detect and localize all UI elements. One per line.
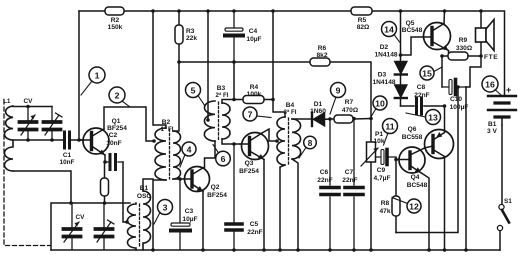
label Q2 BF254 xyxy=(207,184,227,199)
wire battery to switch xyxy=(501,125,503,204)
transistor Q5 xyxy=(424,23,451,51)
svg-text:22nF: 22nF xyxy=(342,177,357,184)
svg-text:B3: B3 xyxy=(217,85,226,92)
node 12 xyxy=(392,198,421,214)
junction dot B3 tap xyxy=(206,118,210,122)
wire C1 to Q1 base xyxy=(72,139,92,141)
wire Q3 collector to B4 tap xyxy=(262,129,277,141)
svg-text:8: 8 xyxy=(308,139,313,148)
node 6 xyxy=(213,145,230,166)
node 16 xyxy=(482,76,501,95)
resistor R3 xyxy=(175,11,183,62)
svg-text:C7: C7 xyxy=(345,169,354,176)
svg-text:P1: P1 xyxy=(375,131,383,138)
svg-text:R2: R2 xyxy=(111,17,120,24)
junction dot rail D2 xyxy=(399,9,403,13)
svg-text:2: 2 xyxy=(115,91,120,101)
wire +3V top rail xyxy=(79,11,505,95)
wire B3 secondary top to R4 C4 xyxy=(222,100,234,104)
svg-text:22nF: 22nF xyxy=(317,177,332,184)
junction dot L1 coupling xyxy=(69,201,73,205)
label C2 10nF xyxy=(106,132,121,147)
junction dot P1 ground xyxy=(369,248,373,252)
wire L1 bottom coupling xyxy=(13,171,71,203)
junction dot B2 ground xyxy=(151,248,155,252)
svg-text:C5: C5 xyxy=(250,221,259,228)
junction dot C7 top xyxy=(352,117,356,121)
label R4 100k xyxy=(247,84,262,98)
svg-text:5: 5 xyxy=(191,86,196,96)
wire D2 D3 bias chain xyxy=(400,11,402,106)
label B1 3V xyxy=(487,121,497,135)
svg-text:82Ω: 82Ω xyxy=(357,24,370,31)
junction dot Q6 collector ground xyxy=(443,248,447,252)
svg-text:10µF: 10µF xyxy=(246,36,261,43)
junction dot B4 primary ground xyxy=(278,248,282,252)
svg-text:10µF: 10µF xyxy=(182,216,197,223)
core B2 xyxy=(169,129,171,179)
label R3 22k xyxy=(186,28,197,42)
wire Q5 base xyxy=(401,37,424,55)
resistor R4 xyxy=(234,96,273,104)
svg-text:8k2: 8k2 xyxy=(316,52,327,59)
node 10 xyxy=(372,96,388,116)
wire B3 secondary bottom to Q3 base xyxy=(222,139,248,144)
svg-text:B1: B1 xyxy=(488,121,497,128)
svg-text:D1: D1 xyxy=(314,101,323,108)
capacitor C6 xyxy=(321,119,339,250)
label D1 1N60 xyxy=(310,101,326,115)
variable capacitor CV (gang b, oscillator) xyxy=(64,203,81,250)
junction dot R4 left xyxy=(232,98,236,102)
node 2 xyxy=(109,87,130,107)
svg-text:2ª FI: 2ª FI xyxy=(216,92,229,99)
svg-text:22nF: 22nF xyxy=(414,92,429,99)
label C4 10uF xyxy=(246,28,261,43)
svg-text:10k: 10k xyxy=(373,138,384,145)
svg-text:13: 13 xyxy=(428,113,438,123)
potentiometer P1 xyxy=(361,119,378,251)
junction dot rail Q5 xyxy=(443,9,447,13)
transistor Q6 xyxy=(425,130,454,159)
resistor R2 xyxy=(105,7,124,15)
IF transformer B4 secondary xyxy=(292,119,301,159)
wire Q6 collector to ground xyxy=(444,157,446,251)
svg-text:C1: C1 xyxy=(63,152,72,159)
wire tank top xyxy=(13,106,52,108)
junction dot Q4 emitter ground xyxy=(427,248,431,252)
wire oscillator tank line y203 xyxy=(51,203,130,250)
battery B1 3V xyxy=(488,96,516,125)
wire B4 secondary bottom to ground xyxy=(292,159,298,250)
label FTE xyxy=(484,54,498,61)
IF transformer B3 secondary xyxy=(222,103,230,139)
wire Q2 collector to B3 xyxy=(205,141,216,167)
resistor R9 xyxy=(448,52,468,60)
junction dot rail speaker xyxy=(479,9,483,13)
svg-text:1N4148: 1N4148 xyxy=(374,52,397,59)
junction dot tank tap CV1 xyxy=(26,138,30,142)
junction dot C7 ground xyxy=(352,248,356,252)
IF transformer B4 primary xyxy=(277,117,285,165)
transistor Q4 xyxy=(396,147,425,173)
svg-text:100k: 100k xyxy=(247,91,262,98)
svg-text:C8: C8 xyxy=(417,84,426,91)
label CV xyxy=(24,98,34,105)
junction dot C10 ground xyxy=(464,248,468,252)
wire B4 primary bottom to ground xyxy=(280,165,285,250)
svg-text:BF254: BF254 xyxy=(107,125,127,132)
core B3 xyxy=(218,102,220,140)
svg-text:1: 1 xyxy=(95,71,100,81)
junction dot AGC R3 xyxy=(177,60,181,64)
wire AGC line xyxy=(179,61,310,63)
wire Q1 emitter node xyxy=(104,155,106,162)
label R6 8k2 xyxy=(316,45,327,59)
wire Q4 emitter to ground xyxy=(421,173,429,250)
svg-text:1ª FI: 1ª FI xyxy=(161,126,174,133)
svg-text:B2: B2 xyxy=(162,119,171,126)
svg-text:1N4148: 1N4148 xyxy=(372,79,395,86)
resistor R6 xyxy=(310,58,330,66)
IF transformer B2 primary xyxy=(155,128,166,180)
junction dot C6 ground xyxy=(328,248,332,252)
svg-text:Q1: Q1 xyxy=(112,118,121,125)
svg-text:Q4: Q4 xyxy=(411,174,420,181)
junction dot FTE xyxy=(479,54,483,58)
switch S1 xyxy=(497,204,509,230)
junction dot base bias xyxy=(77,138,81,142)
svg-text:4: 4 xyxy=(187,145,192,155)
label R9 330ohm xyxy=(456,37,473,52)
wire Q5 emitter node xyxy=(442,51,449,88)
node 8 xyxy=(299,136,316,158)
resistor R1 Q1 emitter xyxy=(101,162,109,203)
junction dot C5 tap xyxy=(232,142,236,146)
svg-text:3 V: 3 V xyxy=(487,128,497,135)
junction dot B4 secondary ground xyxy=(296,248,300,252)
svg-text:BF254: BF254 xyxy=(239,168,259,175)
svg-text:B1: B1 xyxy=(140,185,149,192)
wire R6 AGC return xyxy=(330,62,371,119)
node 7 xyxy=(243,107,271,121)
svg-text:BF254: BF254 xyxy=(207,192,227,199)
junction dot C3 tap xyxy=(178,177,182,181)
diode D3 xyxy=(395,85,407,98)
label Q4 BC548 xyxy=(407,174,428,189)
svg-text:3ª FI: 3ª FI xyxy=(284,109,297,116)
node 14 xyxy=(382,22,400,43)
label Q1 BF254 xyxy=(107,118,127,132)
label C9 4.7uF xyxy=(374,167,391,182)
junction dot C8 right xyxy=(443,104,447,108)
transistor Q1 xyxy=(79,128,109,155)
diode D1 xyxy=(312,113,330,127)
junction dot Q2 emitter ground xyxy=(201,248,205,252)
svg-text:11: 11 xyxy=(385,122,394,132)
node 3 xyxy=(154,200,173,225)
wire detector node xyxy=(330,118,371,121)
svg-text:10: 10 xyxy=(375,99,385,109)
core B1 xyxy=(139,204,141,248)
wire B4 secondary top to D1 xyxy=(292,118,311,120)
label C5 22nF xyxy=(247,221,262,236)
resistor R8 xyxy=(392,160,400,233)
wire C2 to B1 tap xyxy=(123,162,127,222)
label R8 47k xyxy=(379,200,390,215)
dashed gang coupling line xyxy=(4,100,50,246)
wire feedback loop xyxy=(396,87,458,233)
svg-text:FTE: FTE xyxy=(484,54,498,61)
svg-text:14: 14 xyxy=(384,25,394,35)
wire C4 to R4 node xyxy=(233,62,235,100)
label C7 22nF xyxy=(342,169,357,184)
label P1 10k xyxy=(373,131,384,145)
svg-text:150k: 150k xyxy=(108,24,123,31)
wire switch to ground rail xyxy=(499,231,501,250)
node 11 xyxy=(383,119,398,146)
svg-text:CV: CV xyxy=(76,214,86,221)
svg-text:47k: 47k xyxy=(379,208,390,215)
label B1 OSC xyxy=(137,185,152,200)
svg-text:B4: B4 xyxy=(286,102,295,109)
svg-text:10nF: 10nF xyxy=(60,159,75,166)
label Q3 BF254 xyxy=(239,160,259,175)
junction dot R4 right xyxy=(271,98,275,102)
label R5 82ohm xyxy=(357,17,370,31)
trimmer capacitor on CV gang b xyxy=(96,203,115,250)
label battery plus xyxy=(506,85,511,95)
junction dot R1 bottom xyxy=(103,201,107,205)
svg-text:R6: R6 xyxy=(318,45,327,52)
svg-text:15: 15 xyxy=(422,69,432,79)
node 13 xyxy=(406,110,441,125)
svg-text:16: 16 xyxy=(485,80,495,90)
core B4 xyxy=(288,118,290,164)
wire R9 to speaker xyxy=(468,55,481,57)
wire R2 feed to Q1 base xyxy=(78,11,80,140)
capacitor C10 electrolytic xyxy=(442,80,466,95)
svg-text:+: + xyxy=(506,85,511,95)
wire B2 primary bottom to ground xyxy=(153,180,166,250)
label C10 100uF xyxy=(450,96,469,111)
svg-text:CV: CV xyxy=(24,98,34,105)
svg-text:470Ω: 470Ω xyxy=(342,107,359,114)
capacitor C7 xyxy=(345,119,363,251)
svg-text:22nF: 22nF xyxy=(247,229,262,236)
junction dot Q4 base xyxy=(394,158,398,162)
svg-text:Q5: Q5 xyxy=(406,20,415,27)
label B3 2a FI xyxy=(216,85,229,99)
svg-text:R3: R3 xyxy=(186,28,195,35)
svg-text:12: 12 xyxy=(409,202,419,212)
label C6 22nF xyxy=(317,169,332,184)
wire B1 feedback top xyxy=(143,179,153,191)
capacitor C3 electrolytic xyxy=(171,179,190,250)
wire Q1 collector to B2 tap xyxy=(104,107,154,141)
wire Q6 emitter to C8 xyxy=(444,106,446,133)
speaker FTE xyxy=(476,11,495,56)
junction dot C5 ground xyxy=(232,248,236,252)
label CV oscillator xyxy=(76,214,86,221)
svg-text:C6: C6 xyxy=(320,169,329,176)
wire tank tap to C1 xyxy=(13,139,63,141)
svg-text:BC548: BC548 xyxy=(402,27,423,34)
transistor Q3 xyxy=(240,133,269,160)
svg-text:BC548: BC548 xyxy=(407,182,428,189)
svg-text:C3: C3 xyxy=(185,208,194,215)
svg-text:330Ω: 330Ω xyxy=(456,45,473,52)
svg-text:10nF: 10nF xyxy=(106,140,121,147)
wire B3 supply feed xyxy=(207,11,209,120)
oscillator coil B1 feedback winding xyxy=(143,191,151,250)
svg-text:R4: R4 xyxy=(250,84,259,91)
label Q6 BC558 xyxy=(402,126,423,141)
resistor R5 xyxy=(351,7,372,15)
label R2 150k xyxy=(108,17,123,31)
junction dot Q5 base tap xyxy=(399,53,403,57)
junction dot B1 tap xyxy=(125,220,129,224)
antenna coil L1 xyxy=(5,106,14,171)
svg-text:R5: R5 xyxy=(358,17,367,24)
svg-text:R9: R9 xyxy=(459,37,468,44)
oscillator coil B1 primary xyxy=(128,203,137,250)
wire C10 to FTE node xyxy=(466,56,481,87)
wire B4 supply feed xyxy=(273,11,285,117)
label C1 10nF xyxy=(60,152,75,166)
svg-text:C4: C4 xyxy=(249,28,258,35)
transistor Q2 xyxy=(184,167,210,192)
junction dot AGC C4 xyxy=(232,60,236,64)
svg-text:OSC: OSC xyxy=(137,193,152,200)
label B2 1a FI xyxy=(161,119,174,133)
wire R3 to B2 secondary top xyxy=(173,62,179,131)
capacitor C1 xyxy=(65,132,70,148)
wire Q3 emitter to ground xyxy=(263,160,265,251)
capacitor C8 xyxy=(401,98,445,114)
wire C10 to ground xyxy=(465,87,467,250)
junction dot tank tap CV2 xyxy=(50,138,54,142)
junction dot B4 tap xyxy=(275,139,279,143)
capacitor C2 xyxy=(105,161,123,163)
svg-text:C2: C2 xyxy=(109,132,118,139)
wire ground bottom rail xyxy=(51,249,500,251)
label R7 470ohm xyxy=(342,99,359,114)
IF transformer B2 secondary xyxy=(173,131,181,179)
label L1 xyxy=(3,98,11,105)
wire Q2 emitter to ground xyxy=(202,192,204,251)
junction dot CV top xyxy=(26,105,30,109)
junction dot rail C4 xyxy=(232,9,236,13)
label C3 10uF xyxy=(182,208,197,223)
svg-text:4,7µF: 4,7µF xyxy=(374,175,391,182)
junction dot Q1 emitter xyxy=(103,160,107,164)
svg-text:R8: R8 xyxy=(381,200,390,207)
wire B2 secondary bottom to Q2 base xyxy=(173,178,184,180)
label C8 22nF xyxy=(414,84,429,99)
junction dot rail B2 feed xyxy=(151,9,155,13)
svg-text:C9: C9 xyxy=(377,167,386,174)
node 15 xyxy=(420,66,442,80)
svg-text:C10: C10 xyxy=(450,96,462,103)
svg-text:BC558: BC558 xyxy=(402,134,423,141)
label S1 xyxy=(504,198,512,205)
label D2 1N4148 xyxy=(374,44,397,59)
junction dot volume top xyxy=(369,117,373,121)
wire B2 supply feed xyxy=(153,11,166,128)
trimmer capacitor on CV gang a xyxy=(44,107,63,141)
junction dot Q5 emitter xyxy=(440,54,444,58)
wire Q5 collector to rail xyxy=(443,11,446,24)
svg-text:D3: D3 xyxy=(378,72,387,79)
label D3 1N4148 xyxy=(372,72,395,87)
svg-text:Q2: Q2 xyxy=(211,184,220,191)
svg-text:22k: 22k xyxy=(186,35,197,42)
junction dot B2 tap xyxy=(152,139,156,143)
junction dot rail B3 feed xyxy=(206,9,210,13)
variable capacitor CV (gang a, antenna) xyxy=(20,107,37,141)
wire C9 to Q4 base xyxy=(396,158,410,160)
capacitor C9 electrolytic xyxy=(376,150,397,165)
svg-text:Q6: Q6 xyxy=(408,126,417,133)
junction dot rail R3 xyxy=(177,9,181,13)
svg-text:S1: S1 xyxy=(504,198,512,205)
svg-text:3: 3 xyxy=(163,203,168,213)
svg-text:9: 9 xyxy=(336,86,341,96)
junction dot C10 right xyxy=(456,85,460,89)
resistor R7 xyxy=(334,115,353,123)
svg-text:Q3: Q3 xyxy=(245,160,254,167)
node 1 xyxy=(81,67,105,95)
svg-text:6: 6 xyxy=(221,154,226,164)
junction dot Q3 emitter ground xyxy=(262,248,266,252)
node 9 xyxy=(330,83,346,115)
node 5 xyxy=(186,83,206,107)
capacitor C5 xyxy=(226,144,242,250)
label B4 3a FI xyxy=(284,102,297,116)
IF transformer B3 primary xyxy=(204,101,215,141)
svg-text:D2: D2 xyxy=(380,44,389,51)
capacitor C4 electrolytic xyxy=(225,11,243,62)
node 4 xyxy=(180,142,196,167)
diode D2 xyxy=(395,62,407,75)
svg-text:7: 7 xyxy=(248,110,253,120)
label Q5 BC548 xyxy=(402,20,423,34)
junction dot C6 top xyxy=(328,117,332,121)
junction dot rail B4 feed xyxy=(271,9,275,13)
svg-text:R7: R7 xyxy=(345,99,354,106)
svg-text:1N60: 1N60 xyxy=(310,108,326,115)
